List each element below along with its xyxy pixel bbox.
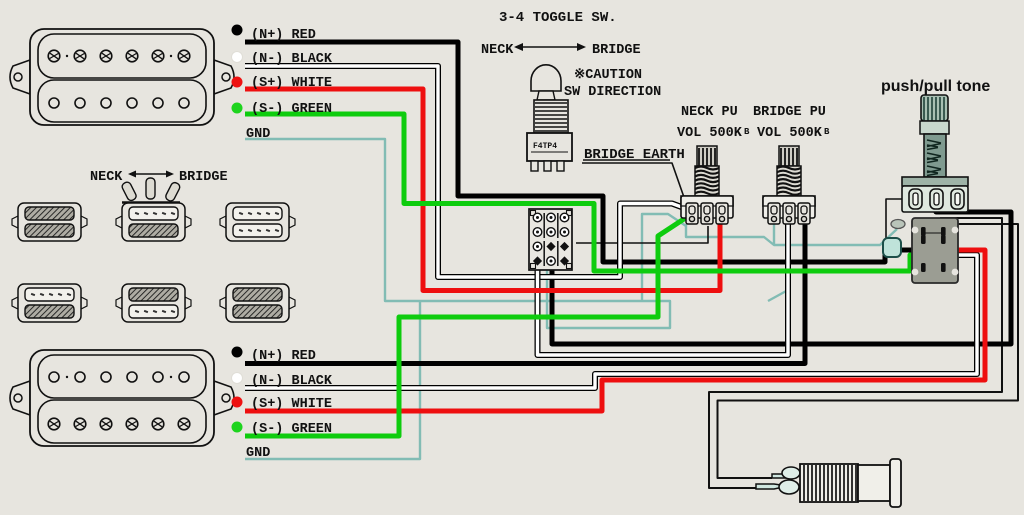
neck pickup mounting ear left (10, 60, 30, 94)
svg-text:SW DIRECTION: SW DIRECTION (564, 85, 661, 100)
selector icon row2 pos4 (12, 284, 87, 322)
toggle pin 3 (557, 161, 564, 171)
wire neck pickup green (S-) to push/pull (245, 114, 928, 271)
selector icon row1 pos3 (220, 203, 295, 241)
wire GND teal to bridge pot from main run (768, 250, 788, 301)
svg-text:NECK: NECK (90, 170, 123, 185)
svg-text:(N+) RED: (N+) RED (251, 349, 316, 364)
node neck N+ dot (232, 25, 243, 36)
wire GND neck pickup horizontal (245, 139, 670, 328)
node neck S- dot (232, 103, 243, 114)
svg-text:GND: GND (246, 127, 270, 142)
wire matrix to push/pull (tone) black (552, 206, 1011, 344)
selector icon row1 pos2 (116, 203, 191, 241)
svg-text:B: B (824, 127, 830, 137)
svg-text:VOL 500K: VOL 500K (757, 126, 823, 141)
wire GND pot casing link (642, 214, 686, 301)
wire neck pickup black (N+) (245, 42, 929, 262)
selector icon row2 pos6 (bridge humbucker) (220, 284, 295, 322)
node neck S+ dot (232, 77, 243, 88)
neck pickup coil 1 (screw coil) (38, 34, 206, 78)
VR1 neck volume lugs (686, 203, 698, 224)
VR1 neck volume threaded bushing (695, 166, 719, 196)
wire GND bridge pot stub (773, 224, 775, 244)
svg-text:BRIDGE PU: BRIDGE PU (753, 105, 826, 120)
svg-text:(N-) BLACK: (N-) BLACK (251, 52, 333, 67)
svg-text:B: B (744, 127, 750, 137)
node bridge S+ dot (232, 397, 243, 408)
toggle stem (537, 91, 555, 100)
wire pot lug1 to capacitor (push/pull tone) (886, 199, 912, 238)
VR2 bridge volume lugs (768, 203, 780, 224)
VR1 neck volume body (681, 196, 733, 206)
svg-text:(S-) GREEN: (S-) GREEN (251, 422, 332, 437)
J1 sleeve lug (772, 474, 796, 478)
neck pickup body frame (30, 29, 214, 125)
solder blob on VR3 casing (891, 220, 905, 229)
capacitor C1 tone cap (883, 238, 901, 257)
svg-text:3-4 TOGGLE SW.: 3-4 TOGGLE SW. (499, 10, 617, 26)
svg-text:F4TP4: F4TP4 (533, 142, 557, 151)
neck pickup coil 2 (slug coil) (38, 80, 206, 122)
bridge pickup body frame (30, 350, 214, 446)
wire bridge pickup black (N+) to bridge pot lug3 (245, 220, 805, 364)
wire matrix to neck pot lug2 (576, 226, 708, 243)
toggle body (527, 133, 572, 161)
node neck N- dot (232, 52, 243, 63)
svg-text:(S-) GREEN: (S-) GREEN (251, 102, 332, 117)
bridge pickup mounting ear left (10, 381, 30, 415)
VR3 threaded bushing (924, 134, 946, 177)
wire neck pickup red (S+) to neck pot lug3 (245, 89, 720, 291)
svg-text:(N-) BLACK: (N-) BLACK (251, 374, 333, 389)
selector lever icon (121, 178, 181, 203)
wire bridge pickup white (N-) to push/pull (245, 255, 977, 388)
VR3 knurled shaft (921, 95, 948, 121)
toggle pin 2 (544, 161, 551, 171)
svg-text:GND: GND (246, 446, 270, 461)
toggle arrow (516, 46, 584, 48)
toggle threaded collar (534, 100, 568, 133)
svg-text:(S+) WHITE: (S+) WHITE (251, 397, 332, 412)
neck pickup mounting ear right (214, 60, 234, 94)
svg-text:VOL 500K: VOL 500K (677, 126, 743, 141)
VR3 shaft collar (920, 121, 949, 134)
potentiometer VR2 bridge volume (763, 146, 815, 224)
VR2 bridge volume threaded bushing (777, 166, 801, 196)
J1 threaded barrel (800, 464, 858, 502)
wire bridge-earth from toggle to neck pot casing (582, 163, 686, 203)
selector icon row2 pos5 (116, 284, 191, 322)
bridge pickup coil 1 (slug coil) (38, 355, 206, 398)
node bridge N- dot (232, 373, 243, 384)
svg-text:NECK: NECK (481, 43, 514, 58)
J1 smooth sleeve (858, 465, 890, 501)
toggle cap (531, 65, 561, 91)
selector icon row1 pos1 (neck humbucker) (12, 203, 87, 241)
wire jack hot loop outer (709, 218, 1002, 488)
VR3 pot body (902, 177, 968, 186)
wire jack ground loop inner (718, 224, 1019, 478)
svg-text:(S+) WHITE: (S+) WHITE (251, 76, 332, 91)
wire bridge pickup red (S+) to push/pull (245, 250, 985, 411)
svg-text:BRIDGE EARTH: BRIDGE EARTH (584, 147, 685, 163)
wire bridge pickup green (S-) to neck pot lug1 (245, 215, 690, 436)
wire matrix white to bridge pot lug2 (538, 222, 789, 355)
J1 tip lug (756, 484, 788, 489)
VR3 push/pull switch body (912, 218, 958, 283)
VR1 neck volume knurled shaft (697, 146, 717, 166)
J1 flange (890, 459, 901, 507)
wire GND bridge pickup (245, 301, 420, 459)
svg-text:BRIDGE: BRIDGE (592, 43, 641, 58)
svg-text:※CAUTION: ※CAUTION (574, 67, 642, 83)
wire neck pickup white (N-) to neck pot lug2 (245, 66, 706, 277)
bridge pickup coil 2 (screw coil) (38, 400, 206, 443)
svg-text:BRIDGE: BRIDGE (179, 170, 228, 185)
bridge pickup mounting ear right (214, 381, 234, 415)
VR2 bridge volume body (763, 196, 815, 206)
toggle pin 1 (531, 161, 538, 171)
potentiometer VR1 neck volume (681, 146, 733, 224)
node bridge N+ dot (232, 347, 243, 358)
svg-text:NECK PU: NECK PU (681, 105, 738, 120)
svg-text:(N+) RED: (N+) RED (251, 28, 316, 43)
wire GND pot-to-pot casing (686, 224, 897, 245)
svg-text:push/pull tone: push/pull tone (881, 78, 990, 95)
selector arrow (130, 173, 172, 175)
VR2 bridge volume knurled shaft (779, 146, 799, 166)
node bridge S- dot (232, 422, 243, 433)
